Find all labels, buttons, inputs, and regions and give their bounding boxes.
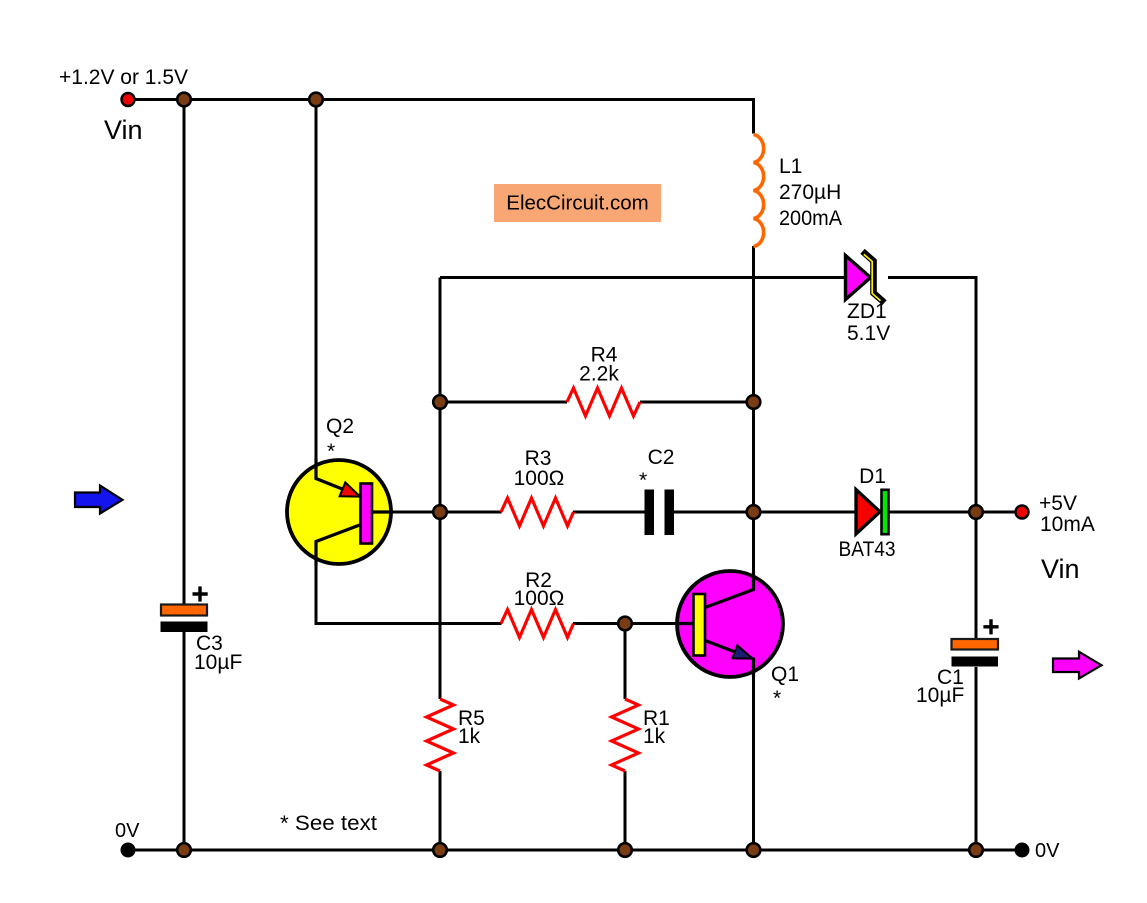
ZD1 value label xyxy=(847,300,890,345)
svg-text:+5V: +5V xyxy=(1039,492,1077,515)
svg-text:Vin: Vin xyxy=(1041,554,1080,584)
wire Q2 emitter branch xyxy=(315,100,318,480)
node junction +5V output xyxy=(969,505,983,519)
resistor R5 xyxy=(427,699,454,771)
wire bottom ground rail xyxy=(128,849,1022,852)
diode D1 xyxy=(856,490,889,535)
inductor L1 xyxy=(754,135,764,247)
resistor R4 xyxy=(567,388,640,416)
svg-text:* See text: * See text xyxy=(280,812,377,835)
svg-text:C2: C2 xyxy=(648,446,675,469)
node junction ground C1 xyxy=(969,843,983,857)
wire Q2 collector to R2 xyxy=(316,541,502,624)
svg-text:0V: 0V xyxy=(115,820,140,842)
svg-text:10µF: 10µF xyxy=(916,684,964,707)
node junction ground Q1 xyxy=(747,843,761,857)
L1 value label xyxy=(779,155,842,230)
wire R4 node to C2 node xyxy=(752,402,755,512)
svg-text:5.1V: 5.1V xyxy=(847,322,890,345)
R1 value label xyxy=(643,707,670,748)
wire R3 to C2 xyxy=(573,511,645,514)
terminal +5V output xyxy=(1016,506,1029,519)
R3 value label xyxy=(514,447,565,490)
R2 value label xyxy=(514,569,565,610)
wire Q1 collector riser xyxy=(752,512,755,590)
zener diode ZD1 xyxy=(846,254,883,301)
svg-text:200mA: 200mA xyxy=(779,207,842,230)
resistor R1 xyxy=(612,699,639,771)
svg-text:D1: D1 xyxy=(859,465,886,488)
svg-text:1k: 1k xyxy=(643,725,666,748)
wire C1 branch lower xyxy=(975,667,978,850)
node junction R4 left xyxy=(433,395,447,409)
svg-text:1k: 1k xyxy=(458,725,481,748)
node junction top Q2 xyxy=(309,93,323,107)
wire Q1 emitter to ground rail xyxy=(752,659,755,850)
wire node to D1 anode xyxy=(754,511,856,514)
capacitor C2 xyxy=(645,490,675,536)
svg-text:100Ω: 100Ω xyxy=(514,587,565,610)
node junction R1 top xyxy=(618,617,632,631)
wire ZD1 anode rail xyxy=(440,276,846,279)
svg-text:+1.2V or 1.5V: +1.2V or 1.5V xyxy=(59,66,188,89)
svg-text:L1: L1 xyxy=(779,155,802,178)
D1 value label xyxy=(839,465,896,561)
terminal Vin positive xyxy=(122,93,135,106)
C3 value label xyxy=(194,632,242,674)
wire C3 branch upper xyxy=(183,100,186,605)
wire R4 right xyxy=(640,401,754,404)
svg-text:*: * xyxy=(327,440,335,463)
transistor Q2 xyxy=(287,458,392,566)
terminal 0V right xyxy=(1015,843,1030,858)
wire R2 to Q1 base xyxy=(573,622,693,625)
wire top rail Vin to L1 xyxy=(128,100,754,134)
node junction C2 right xyxy=(747,505,761,519)
R4 value label xyxy=(579,344,619,386)
capacitor C3 xyxy=(161,586,208,632)
wire C2 to node xyxy=(674,511,754,514)
node junction ground C3 xyxy=(177,843,191,857)
svg-text:270µH: 270µH xyxy=(779,181,841,204)
R5 value label xyxy=(458,707,485,748)
svg-text:*: * xyxy=(639,469,647,492)
wire C1 branch upper xyxy=(975,512,978,639)
watermark ElecCircuit.com xyxy=(494,184,661,222)
svg-text:100Ω: 100Ω xyxy=(514,467,565,490)
svg-text:2.2k: 2.2k xyxy=(579,363,619,386)
C2 value label xyxy=(639,446,674,492)
transistor Q1 xyxy=(676,571,783,677)
node junction ground R1 xyxy=(618,843,632,857)
node junction top C3 xyxy=(177,93,191,107)
C1 value label xyxy=(916,666,964,707)
wire Q2 base to R3 xyxy=(372,511,502,514)
svg-text:ZD1: ZD1 xyxy=(847,300,887,323)
wire left feedback rail upper xyxy=(439,278,442,700)
wire R1 branch lower xyxy=(624,771,627,850)
wire left feedback rail lower xyxy=(439,771,442,850)
Q1 label xyxy=(771,663,799,710)
svg-text:10mA: 10mA xyxy=(1040,513,1095,536)
wire C3 branch lower xyxy=(183,632,186,850)
node junction Q2 base xyxy=(433,505,447,519)
wire R1 branch upper xyxy=(624,624,627,700)
output arrow xyxy=(1053,652,1102,679)
svg-text:0V: 0V xyxy=(1035,840,1060,862)
terminal 0V left xyxy=(121,843,136,858)
wire R4 left xyxy=(440,401,567,404)
svg-text:ElecCircuit.com: ElecCircuit.com xyxy=(506,192,648,215)
wire D1 cathode to +5V terminal xyxy=(888,511,1015,514)
svg-text:10µF: 10µF xyxy=(194,651,242,674)
wire L1 bottom to R4 node xyxy=(752,246,755,402)
svg-text:Vin: Vin xyxy=(104,115,143,145)
net label +5V 10mA xyxy=(1039,492,1095,536)
svg-text:BAT43: BAT43 xyxy=(839,538,896,561)
capacitor C1 xyxy=(952,619,999,666)
svg-text:Q1: Q1 xyxy=(771,663,799,686)
Q2 label xyxy=(326,415,354,463)
resistor R2 xyxy=(501,610,574,638)
node junction R4 right xyxy=(747,395,761,409)
resistor R3 xyxy=(501,498,574,526)
input arrow xyxy=(75,486,123,514)
svg-text:*: * xyxy=(773,687,781,710)
wire ZD1 cathode to output rail xyxy=(888,278,976,513)
node junction ground R5 xyxy=(433,843,447,857)
svg-text:Q2: Q2 xyxy=(326,415,354,438)
